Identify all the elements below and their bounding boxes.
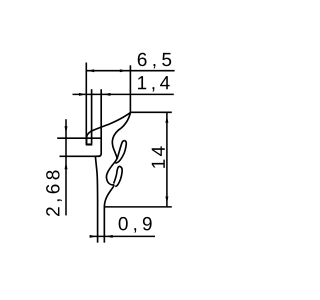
wire vertical dimension line 2,68 xyxy=(65,119,67,215)
wire dimension line 1,4 with leader under text xyxy=(73,93,174,95)
node arrowhead 6,5 left xyxy=(87,69,94,72)
wire extension/profile edge right vertical at x=130 xyxy=(129,65,131,112)
node arrowhead 2,68 bottom xyxy=(65,162,68,169)
wire fin 2 arch with legs merging into outline xyxy=(114,166,123,186)
wire extension line lower for 2,68 xyxy=(60,155,101,157)
wire dimension line 0,9 with leader under text xyxy=(90,235,155,237)
wire extension line upper for 2,68 xyxy=(57,137,101,139)
value label 1,4 xyxy=(138,76,170,92)
wire profile pocket bottom cap xyxy=(86,143,92,145)
node arrowhead 1,4 left xyxy=(79,93,86,96)
wire profile top sweeping curve from top-right corner to pocket outer wall xyxy=(87,113,131,145)
value label 2,68 rotated xyxy=(46,171,62,216)
wire profile body right edge from corner down to first fin junction xyxy=(112,113,130,160)
wire profile top stem right line curving into left shoulder and left edge down to bottom stem xyxy=(95,89,101,242)
node arrowhead 2,68 top xyxy=(65,126,68,133)
wire extension line bottom for 14 xyxy=(104,206,172,208)
node arrowhead 6,5 right xyxy=(120,69,127,72)
wire dimension line 6,5 with leader under text xyxy=(86,70,174,72)
node arrowhead 1,4 right xyxy=(103,93,110,96)
wire fin 1 left leg continuing as main outline to bottom stem xyxy=(104,141,124,243)
node arrowhead 14 top xyxy=(165,116,168,123)
wire profile top stem left line xyxy=(91,89,93,144)
value label 14 rotated xyxy=(152,146,165,167)
wire fin 1 tip curl and right leg sweeping into fin 2 region xyxy=(115,141,126,164)
node arrowhead 0,9 right xyxy=(106,235,113,238)
node arrowhead 14 bottom xyxy=(165,197,168,204)
wire vertical dimension line 14 xyxy=(166,112,168,207)
value label 0,9 xyxy=(119,217,152,233)
value label 6,5 xyxy=(138,53,171,69)
node arrowhead 0,9 left xyxy=(90,235,97,238)
wire extension line top for 14 xyxy=(130,111,171,113)
wire extension line left of 6,5 merging into profile pocket outer wall xyxy=(85,63,87,145)
